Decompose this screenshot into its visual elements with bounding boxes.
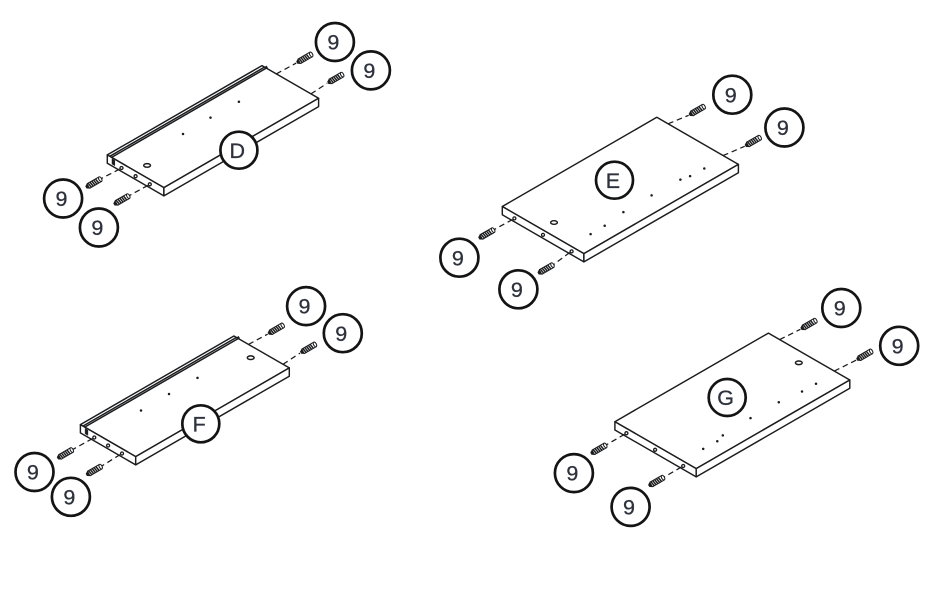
- svg-text:9: 9: [363, 59, 375, 83]
- svg-text:9: 9: [327, 31, 339, 55]
- svg-text:F: F: [193, 412, 206, 436]
- svg-text:D: D: [230, 139, 246, 163]
- svg-text:9: 9: [56, 187, 68, 211]
- svg-text:9: 9: [27, 461, 39, 485]
- svg-text:9: 9: [452, 246, 464, 270]
- svg-text:9: 9: [511, 278, 523, 302]
- svg-text:9: 9: [566, 462, 578, 486]
- svg-text:9: 9: [834, 297, 846, 321]
- svg-text:9: 9: [335, 322, 347, 346]
- svg-text:9: 9: [63, 485, 75, 509]
- svg-text:9: 9: [725, 83, 737, 107]
- svg-text:9: 9: [892, 334, 904, 358]
- svg-text:E: E: [606, 169, 620, 193]
- svg-text:G: G: [717, 386, 734, 410]
- svg-text:9: 9: [299, 295, 311, 319]
- svg-text:9: 9: [623, 496, 635, 520]
- svg-text:9: 9: [91, 216, 103, 240]
- svg-text:9: 9: [777, 116, 789, 140]
